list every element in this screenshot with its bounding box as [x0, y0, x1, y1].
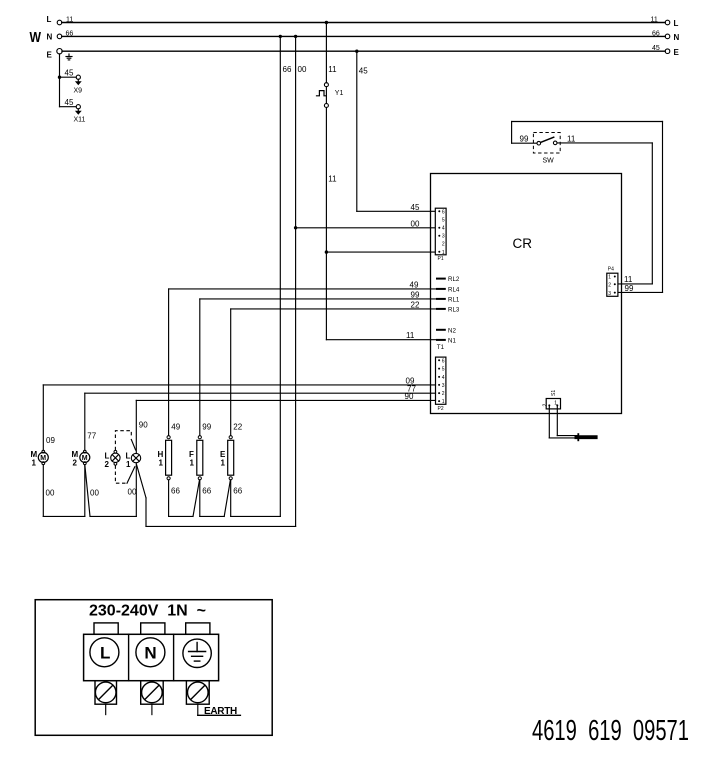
wire 00 branch to P1 pin4 — [294, 219, 436, 229]
terminal N1 — [436, 338, 456, 351]
terminal N2 — [436, 327, 456, 334]
wire 11 branch to P1 pin1 — [325, 250, 436, 253]
wire L1 top 90 — [136, 400, 148, 453]
svg-text:99: 99 — [202, 423, 211, 432]
svg-text:11: 11 — [328, 175, 337, 184]
svg-text:22: 22 — [233, 423, 242, 432]
svg-text:P2: P2 — [438, 406, 444, 412]
wire 09 M1 to P2 pin3 — [43, 376, 435, 385]
svg-text:90: 90 — [139, 421, 148, 430]
wire 22 RL3 to E1 — [231, 300, 436, 309]
svg-text:2: 2 — [442, 242, 445, 248]
svg-text:66: 66 — [171, 487, 180, 496]
wire run 00 mid — [90, 515, 136, 517]
wire 45 vertical from E to P1 pin6 — [355, 50, 435, 212]
svg-text:1: 1 — [442, 250, 445, 256]
wire 11 vertical from L — [325, 21, 337, 83]
svg-text:45: 45 — [652, 45, 660, 52]
svg-text:N: N — [47, 32, 53, 41]
wire 66 vertical from N — [279, 35, 292, 517]
terminal X9 — [74, 75, 83, 94]
wire to X11 — [60, 106, 77, 108]
wire L1 bottom 00 — [128, 463, 147, 527]
connector P1 — [435, 208, 446, 262]
svg-text:77: 77 — [87, 432, 96, 441]
svg-text:L: L — [100, 644, 110, 663]
wire M2 top 77 — [85, 393, 97, 450]
svg-text:00: 00 — [128, 488, 137, 497]
relay output RL4 — [436, 287, 460, 294]
svg-text:45: 45 — [411, 203, 420, 212]
lamp L2 — [105, 450, 121, 469]
wire 00 vertical from N — [294, 35, 307, 527]
screw N — [141, 681, 164, 705]
svg-text:X9: X9 — [74, 87, 83, 94]
svg-text:Y1: Y1 — [335, 90, 344, 97]
wire M1 top 09 — [43, 385, 55, 450]
svg-text:S1: S1 — [551, 390, 557, 396]
svg-text:1: 1 — [126, 460, 131, 469]
svg-text:09: 09 — [46, 436, 55, 445]
ground — [66, 54, 72, 60]
board CR — [431, 174, 622, 414]
svg-text:EARTH: EARTH — [204, 706, 237, 717]
temperature probe — [575, 433, 598, 441]
wire run 00 left — [43, 515, 85, 517]
svg-text:W: W — [30, 29, 42, 46]
svg-text:RL3: RL3 — [448, 307, 460, 314]
earth wire and label — [198, 714, 241, 716]
heater E1 — [220, 436, 234, 480]
wire S1 left pin to probe — [549, 405, 577, 438]
svg-text:11: 11 — [328, 65, 337, 74]
wire E1 bottom 66 — [224, 480, 243, 517]
svg-text:X11: X11 — [74, 117, 86, 124]
node N rail — [47, 30, 680, 42]
svg-text:00: 00 — [46, 489, 55, 498]
solenoid Y1 — [316, 83, 344, 108]
wire 77 M2 to P2 pin2 — [85, 385, 436, 394]
svg-text:5: 5 — [442, 218, 445, 224]
svg-text:66: 66 — [202, 487, 211, 496]
heater H1 — [158, 436, 172, 480]
svg-text:1: 1 — [159, 459, 164, 468]
svg-text:E: E — [674, 48, 680, 57]
svg-text:L: L — [47, 15, 52, 24]
svg-text:45: 45 — [359, 67, 368, 76]
svg-text:4: 4 — [442, 375, 445, 381]
svg-text:P4: P4 — [608, 267, 614, 273]
terminal L — [90, 638, 119, 667]
block body — [84, 634, 219, 680]
svg-text:99: 99 — [411, 290, 420, 299]
screw L — [95, 681, 117, 705]
svg-text:66: 66 — [66, 30, 74, 37]
motor M2 — [72, 450, 90, 468]
svg-text:66: 66 — [283, 65, 292, 74]
lamp L1 — [126, 452, 141, 470]
svg-text:4: 4 — [442, 226, 445, 232]
svg-text:66: 66 — [652, 30, 660, 37]
svg-text:45: 45 — [65, 98, 74, 107]
wire 49 RL4 to H1 — [169, 280, 436, 289]
svg-text:2: 2 — [442, 391, 445, 397]
svg-text:M: M — [40, 455, 46, 462]
motor M1 — [31, 450, 49, 468]
tabs — [94, 623, 118, 634]
wire L2 dashed top — [115, 431, 135, 451]
wire 99 RL1 to F1 — [200, 290, 436, 299]
svg-text:SW: SW — [543, 158, 555, 165]
svg-text:90: 90 — [405, 392, 414, 401]
svg-text:3: 3 — [442, 234, 445, 240]
wire SW 11 to P4 pin2 — [557, 134, 652, 284]
node E rail — [47, 45, 680, 59]
svg-text:45: 45 — [65, 69, 74, 78]
wire H1 top 49 — [169, 289, 181, 436]
svg-text:00: 00 — [90, 489, 99, 498]
switch SW — [533, 133, 560, 165]
svg-text:RL1: RL1 — [448, 297, 460, 304]
svg-text:1: 1 — [608, 275, 611, 281]
svg-text:4619 619 09571: 4619 619 09571 — [532, 715, 689, 747]
terminal N — [136, 638, 165, 667]
wire to X9 — [60, 76, 77, 78]
svg-text:49: 49 — [171, 423, 180, 432]
wire M2 bottom 00 — [85, 465, 100, 517]
wire run 66 a — [169, 515, 193, 517]
svg-text:E: E — [47, 50, 53, 59]
wire H1 bottom 66 — [169, 480, 181, 517]
svg-text:6: 6 — [442, 358, 445, 364]
svg-text:2: 2 — [608, 283, 611, 289]
svg-text:1: 1 — [221, 459, 226, 468]
svg-text:99: 99 — [625, 284, 634, 293]
svg-text:11: 11 — [567, 134, 576, 143]
wire E branch vertical — [59, 54, 61, 107]
svg-text:2: 2 — [73, 459, 78, 468]
terminal X11 — [74, 105, 86, 124]
svg-text:N: N — [144, 644, 156, 663]
svg-text:00: 00 — [411, 219, 420, 228]
svg-text:RL4: RL4 — [448, 287, 460, 294]
svg-text:N1: N1 — [448, 338, 456, 345]
svg-text:1: 1 — [442, 399, 445, 405]
wire S1 right pin to probe — [557, 405, 577, 435]
svg-text:3: 3 — [442, 383, 445, 389]
svg-text:N2: N2 — [448, 327, 456, 334]
wire SW 99 loop — [512, 122, 663, 294]
node junction E branch — [58, 76, 61, 79]
wire 11 below Y1 down to N1 wire — [326, 108, 337, 340]
svg-text:49: 49 — [410, 280, 419, 289]
wire run 66 b — [200, 515, 224, 517]
svg-text:230-240V 1N ~: 230-240V 1N ~ — [89, 603, 206, 620]
connector S1 — [543, 390, 561, 409]
svg-text:99: 99 — [520, 134, 529, 143]
svg-text:L: L — [674, 19, 679, 28]
svg-text:66: 66 — [233, 487, 242, 496]
heater F1 — [189, 436, 203, 480]
svg-text:6: 6 — [442, 209, 445, 215]
wire L2 dashed bottom — [115, 465, 134, 483]
wire run 66 c — [231, 515, 281, 517]
connector P2 — [436, 357, 446, 412]
svg-text:RL2: RL2 — [448, 276, 460, 283]
wire 90 L1 to P2 pin1 — [136, 392, 435, 401]
svg-text:1: 1 — [190, 459, 195, 468]
svg-text:11: 11 — [406, 331, 415, 340]
wire 11 to N1 — [326, 331, 436, 340]
outer box — [35, 600, 272, 736]
svg-text:11: 11 — [651, 16, 658, 23]
relay output RL2 — [436, 276, 460, 283]
svg-text:2: 2 — [105, 460, 110, 469]
terminal block drawing — [35, 600, 272, 736]
terminal earth — [183, 639, 211, 667]
svg-text:00: 00 — [298, 65, 307, 74]
connector P4 — [607, 267, 618, 297]
svg-text:1: 1 — [32, 459, 37, 468]
svg-text:11: 11 — [624, 275, 633, 284]
wire F1 bottom 66 — [193, 480, 212, 517]
svg-text:CR: CR — [513, 236, 533, 251]
screw earth — [186, 681, 209, 705]
wire F1 top 99 — [200, 299, 212, 436]
svg-text:T1: T1 — [437, 344, 445, 351]
svg-text:22: 22 — [411, 300, 420, 309]
svg-text:5: 5 — [442, 367, 445, 373]
wire run 00 lower — [146, 525, 296, 527]
svg-text:N: N — [674, 33, 680, 42]
relay output RL3 — [436, 307, 460, 314]
svg-text:11: 11 — [66, 16, 73, 23]
svg-text:2: 2 — [543, 404, 549, 407]
node L rail — [47, 15, 679, 28]
wire M1 bottom 00 — [43, 465, 55, 517]
wire E1 top 22 — [231, 309, 243, 436]
svg-text:3: 3 — [608, 291, 611, 297]
svg-text:M: M — [82, 455, 88, 462]
relay output RL1 — [436, 297, 460, 304]
svg-text:P1: P1 — [438, 256, 444, 262]
